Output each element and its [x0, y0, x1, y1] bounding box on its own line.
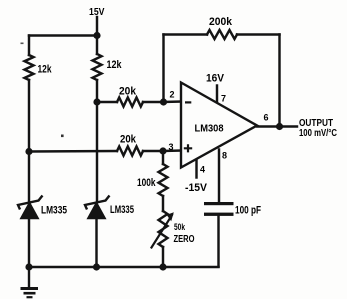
- svg-text:3: 3: [169, 142, 174, 152]
- capacitor C1 top plate: [204, 202, 234, 205]
- resistor R6 100k: [159, 164, 168, 196]
- op-amp U1 pin 4 stub: [195, 160, 197, 178]
- wire R6 to potentiometer: [162, 196, 164, 211]
- sensor D1 LM335: [18, 196, 43, 219]
- ground symbol: [21, 267, 39, 297]
- wire node B to R3: [97, 101, 117, 103]
- resistor R4 20k: [117, 147, 143, 156]
- svg-text:7: 7: [221, 94, 226, 104]
- junction ground rail mid: [93, 263, 100, 270]
- svg-text:200k: 200k: [209, 16, 233, 28]
- svg-text:LM335: LM335: [41, 205, 67, 217]
- sensor D2 LM335: [85, 196, 110, 219]
- potentiometer R7 wiper arrow: [152, 215, 173, 248]
- wire R4 to pin 3 node: [143, 150, 163, 152]
- op-amp U1 plus input sign: [184, 144, 192, 152]
- wire left column upper: [28, 36, 30, 56]
- capacitor C1 bottom plate: [204, 213, 234, 216]
- wire pin 3 lead: [163, 149, 181, 152]
- svg-text:20k: 20k: [120, 134, 137, 146]
- op-amp U1 minus input sign: [185, 101, 191, 103]
- junction node B (R2/LM335-2/R3): [93, 98, 100, 105]
- wire op-amp output: [257, 125, 297, 127]
- svg-text:20k: 20k: [119, 86, 137, 98]
- svg-text:LM308: LM308: [195, 124, 224, 135]
- svg-text:50k: 50k: [174, 222, 186, 232]
- junction output node: [276, 123, 283, 130]
- junction pin 2 summing node: [160, 98, 167, 105]
- svg-text:12k: 12k: [38, 64, 53, 76]
- wire pin 8 to capacitor: [218, 150, 220, 203]
- junction ground rail right: [159, 263, 166, 270]
- svg-text:8: 8: [222, 151, 227, 161]
- wire feedback top right: [237, 33, 280, 35]
- op-amp U1 pin 7 stub: [216, 86, 218, 104]
- svg-text:100 mV/°C: 100 mV/°C: [299, 128, 337, 139]
- svg-text:100 pF: 100 pF: [235, 205, 261, 217]
- svg-text:12k: 12k: [107, 59, 123, 71]
- wire feedback drop to output: [278, 35, 280, 127]
- wire R3 to pin 2 node: [143, 101, 163, 103]
- wire pot to bottom rail: [162, 247, 164, 267]
- wire pin 2 lead: [163, 100, 181, 103]
- junction node A (R1/LM335-1/R4): [25, 148, 32, 155]
- wire second column upper: [96, 36, 98, 55]
- svg-text:4: 4: [200, 164, 205, 174]
- wire left column middle: [28, 80, 30, 201]
- resistor R2 12k: [93, 54, 102, 80]
- svg-text:16V: 16V: [206, 73, 225, 85]
- svg-text:LM335: LM335: [110, 204, 134, 216]
- svg-text:6: 6: [264, 113, 269, 123]
- svg-text:100k: 100k: [137, 177, 156, 189]
- resistor R5 200k: [207, 30, 237, 39]
- wire bottom rail: [29, 266, 219, 268]
- wire node A to R4: [29, 150, 117, 153]
- wire pin3 node down: [162, 151, 164, 164]
- junction pin 3 node: [159, 147, 166, 154]
- wire 15V supply stub: [96, 17, 98, 36]
- junction 15V rail node: [93, 32, 100, 39]
- wire second column middle: [96, 80, 98, 201]
- potentiometer R7 arrowhead: [167, 212, 174, 221]
- wire left column lower: [28, 218, 30, 267]
- speck marks from scan: [21, 43, 24, 45]
- svg-text:2: 2: [170, 90, 175, 100]
- junction ground rail left: [25, 263, 32, 270]
- resistor R1 12k: [25, 55, 34, 80]
- wire second column lower: [95, 219, 97, 268]
- svg-text:15V: 15V: [89, 6, 105, 18]
- svg-text:-15V: -15V: [185, 182, 208, 194]
- resistor R3 20k: [117, 98, 143, 107]
- wire top rail: [29, 34, 97, 36]
- op-amp U1 LM308 triangle: [181, 83, 257, 168]
- svg-text:ZERO: ZERO: [174, 234, 195, 245]
- wire capacitor to bottom rail: [217, 216, 219, 267]
- wire feedback top left: [164, 33, 208, 35]
- potentiometer R7 50k zigzag: [159, 211, 168, 247]
- wire feedback riser left: [162, 35, 164, 103]
